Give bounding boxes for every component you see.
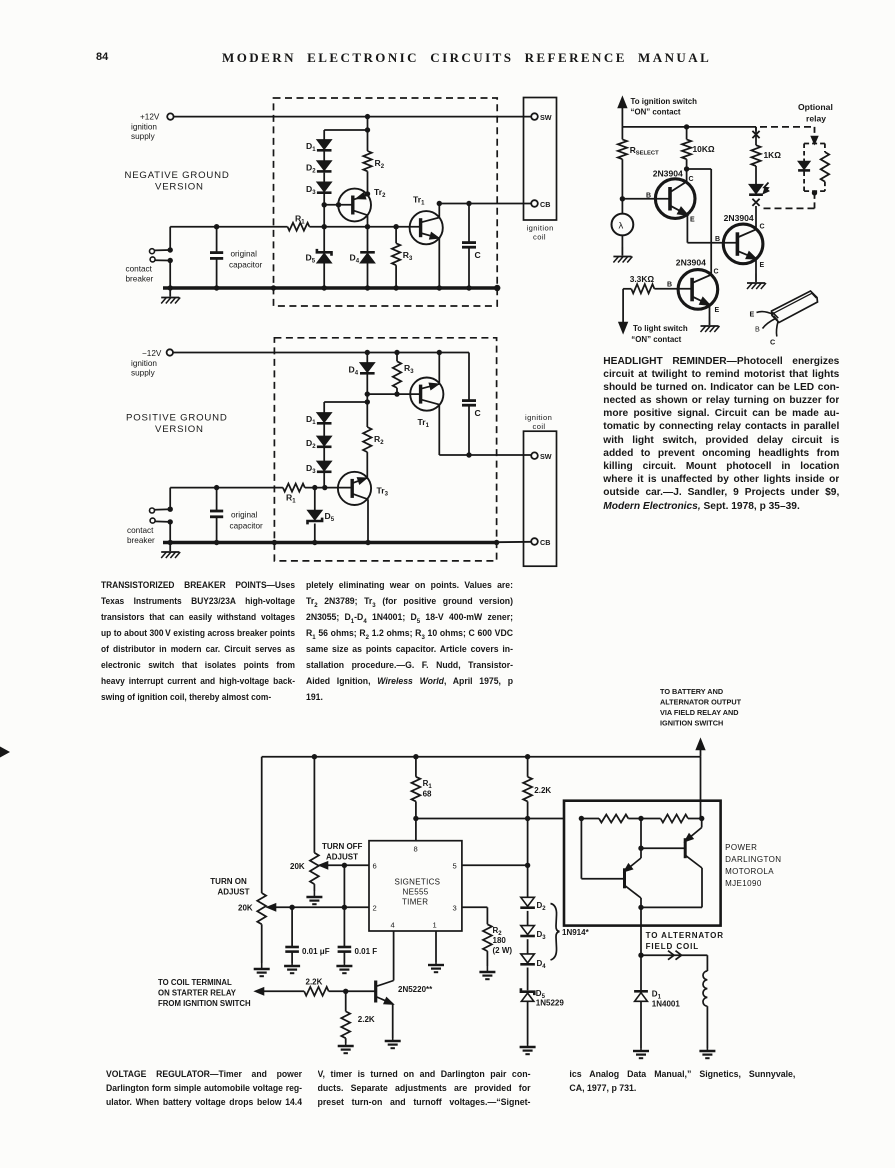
wire D4 lead (366, 353, 368, 363)
wire R2 to Tr3 (366, 452, 368, 478)
resistor R2 (363, 427, 371, 452)
wire D5 to rail (323, 264, 325, 289)
resistor internal 2 (661, 815, 688, 823)
node D4 bottom junction (365, 391, 370, 396)
capacitor original (210, 251, 223, 254)
svg-text:CB: CB (540, 200, 550, 209)
caption transistorized breaker points col 1 (101, 577, 295, 705)
svg-text:R3: R3 (403, 250, 413, 262)
wire D5 lead (314, 488, 316, 511)
svg-text:IGNITION SWITCH: IGNITION SWITCH (660, 719, 723, 728)
svg-text:MOTOROLA: MOTOROLA (725, 867, 774, 876)
node R2 column junction (365, 399, 370, 404)
svg-text:capacitor: capacitor (230, 522, 263, 531)
arrow up ignition (618, 98, 626, 108)
svg-text:1KΩ: 1KΩ (764, 150, 782, 160)
zener D5 1N5229 (521, 988, 534, 995)
svg-text:C: C (689, 176, 694, 183)
svg-text:ON STARTER RELAY: ON STARTER RELAY (158, 989, 237, 998)
svg-text:E: E (750, 310, 755, 319)
svg-text:contact: contact (126, 265, 153, 274)
zener D5 (308, 511, 322, 520)
optional relay coil (824, 144, 826, 153)
capacitor C (462, 241, 476, 244)
svg-text:1N914*: 1N914* (562, 928, 590, 937)
svg-text:C: C (475, 408, 481, 418)
wire QR collector down (701, 868, 703, 907)
svg-text:3: 3 (453, 904, 457, 913)
node base junction (322, 202, 327, 207)
wire breaker drop (169, 227, 171, 250)
ground pin1 (435, 962, 437, 965)
wire D4 lead (367, 227, 369, 253)
diode D1 1N4001 (640, 955, 642, 990)
wire -12V rail (173, 352, 469, 354)
svg-text:Optional: Optional (798, 102, 833, 112)
resistor 2.2K vertical (345, 991, 347, 1011)
capacitor 0.01uF second (343, 865, 345, 946)
wire D2-D3 (527, 911, 529, 926)
wire Tr1 up to rail (438, 353, 440, 384)
svg-text:TURN ON: TURN ON (210, 877, 247, 886)
ground Q3 (709, 317, 711, 326)
svg-text:ignition: ignition (527, 224, 554, 233)
svg-text:0.01 F: 0.01 F (355, 947, 378, 956)
ignition coil box (524, 98, 557, 221)
svg-text:B: B (667, 282, 672, 289)
svg-text:3.3KΩ: 3.3KΩ (630, 274, 655, 284)
wire C top lead (468, 353, 470, 401)
node rail junction (466, 285, 471, 290)
node cap2 crossing (342, 905, 347, 910)
svg-text:VERSION: VERSION (155, 182, 204, 193)
wire Rselect to photocell (621, 159, 623, 214)
node turn-on pot top (312, 754, 317, 759)
svg-text:20K: 20K (290, 862, 305, 871)
wire QL base loop (580, 819, 582, 879)
capacitor C (462, 399, 476, 402)
svg-text:−12V: −12V (142, 349, 162, 358)
wire pin5 (462, 864, 528, 866)
svg-text:FROM IGNITION SWITCH: FROM IGNITION SWITCH (158, 999, 251, 1008)
wire R2 to Tr2 collector (367, 171, 369, 195)
running head title (222, 50, 705, 66)
wire to ignition switch (621, 104, 623, 127)
node cap top (214, 485, 219, 490)
diode D4 (360, 251, 375, 254)
node QR base junction (638, 846, 643, 851)
svg-text:original: original (231, 250, 258, 259)
page number (96, 51, 108, 63)
resistor 2.2K right (527, 757, 529, 777)
wire C bottom lead (468, 405, 470, 455)
node D4 top (365, 350, 370, 355)
svg-text:Tr3: Tr3 (377, 486, 389, 498)
svg-text:VIA FIELD RELAY AND: VIA FIELD RELAY AND (660, 708, 739, 717)
wire base line Tr1 (367, 393, 420, 395)
contact breaker lower contact (150, 518, 155, 523)
svg-text:D1: D1 (306, 414, 316, 426)
svg-text:D2: D2 (306, 438, 316, 450)
node 2.2K crossing (525, 816, 530, 821)
wire R3 lead (396, 353, 398, 362)
node rail junction (365, 285, 370, 290)
node rail junction (393, 285, 398, 290)
node rail junction (168, 540, 173, 545)
diode D3 1N914 (521, 926, 535, 935)
transistor Q2 2N3904 (723, 224, 763, 264)
svg-text:To light switch: To light switch (633, 324, 688, 333)
wire left column (261, 757, 263, 893)
transistor Tr1 (410, 211, 443, 244)
svg-text:6: 6 (373, 862, 377, 871)
svg-text:ALTERNATOR OUTPUT: ALTERNATOR OUTPUT (660, 698, 742, 707)
node CB terminal (531, 538, 538, 545)
svg-text:“ON” contact: “ON” contact (631, 108, 681, 117)
wire breaker line (170, 226, 287, 228)
wire breaker drop (169, 488, 171, 510)
svg-text:NEGATIVE GROUND: NEGATIVE GROUND (125, 170, 230, 181)
svg-text:coil: coil (533, 233, 546, 242)
dashed enclosure (274, 338, 496, 561)
inductor field coil (703, 971, 707, 1006)
svg-text:capacitor: capacitor (229, 261, 262, 270)
node R3 top (394, 350, 399, 355)
transistor Q1 2N3904 (655, 179, 695, 219)
resistor R3 (393, 361, 401, 388)
wire turn-off column (313, 757, 315, 853)
node cap top (214, 224, 219, 229)
wire base line (259, 990, 304, 992)
wire C top lead (468, 204, 470, 243)
capacitor original (210, 510, 223, 513)
wire QR base (640, 819, 642, 859)
caption voltage regulator col 1 (106, 1067, 302, 1110)
ground 2.2K vertical (345, 1043, 347, 1046)
svg-text:VERSION: VERSION (155, 424, 204, 435)
wire collector feed (700, 757, 702, 819)
svg-text:2N5220**: 2N5220** (398, 985, 433, 994)
diode D4 1N914 (521, 954, 535, 963)
svg-text:D3: D3 (537, 930, 547, 941)
svg-text:TO COIL TERMINAL: TO COIL TERMINAL (158, 978, 232, 987)
resistor R2 180 (483, 924, 492, 951)
x mark upper (752, 131, 759, 138)
wire relay dashed bottom (814, 193, 816, 209)
node relay bottom (812, 190, 817, 195)
svg-text:D4: D4 (350, 253, 360, 265)
ground photocell (621, 247, 623, 256)
wire pin2 wiper (271, 906, 369, 908)
svg-text:RSELECT: RSELECT (630, 145, 659, 157)
svg-text:SW: SW (540, 113, 552, 122)
svg-text:DARLINGTON: DARLINGTON (725, 855, 781, 864)
node SW terminal (531, 452, 538, 459)
resistor 3.3K (623, 288, 631, 290)
wire pin1 ground (435, 931, 437, 962)
potentiometer TURN ON 20K (257, 893, 266, 924)
svg-text:1: 1 (433, 921, 437, 930)
zener D5 (317, 249, 332, 256)
arrow wiper turn-off (320, 862, 328, 869)
wire rail to R2 top (367, 117, 369, 151)
svg-text:5: 5 (453, 862, 457, 871)
node 10K top (684, 124, 689, 129)
svg-text:coil: coil (533, 422, 546, 431)
node collector junction (684, 166, 689, 171)
caption transistorized breaker points col 2 (306, 577, 513, 705)
diode D1 (317, 140, 331, 149)
wire R2 column (366, 394, 368, 427)
wire pin4 (393, 931, 395, 981)
svg-text:Tr2: Tr2 (374, 187, 386, 199)
resistor 2.2K base (304, 987, 329, 996)
transistor Tr3 (338, 472, 371, 505)
wire D2-D3 (323, 448, 325, 461)
diode D3 (317, 461, 331, 470)
contact breaker upper contact (150, 508, 155, 513)
diode D2 1N914 (521, 897, 535, 906)
wire rail to CB (497, 541, 532, 543)
resistor internal 1 (599, 815, 628, 823)
node base junction (343, 989, 348, 994)
wire base of Tr2 (324, 204, 353, 206)
wire Tr1 collector up (438, 204, 440, 218)
node R1 top (413, 754, 418, 759)
resistor R1 (288, 223, 310, 231)
svg-text:ignition: ignition (525, 413, 552, 422)
node pin8 junction (413, 816, 418, 821)
node Tr1 emitter junction (437, 350, 442, 355)
svg-text:180: 180 (493, 936, 507, 945)
ground turn-off pot (313, 891, 315, 897)
wire original capacitor to rail (216, 258, 218, 288)
resistor R1 (283, 484, 305, 492)
wire branch to diode string (324, 129, 367, 131)
ground Q2 (755, 274, 757, 283)
node rail junction (437, 285, 442, 290)
contact breaker upper contact (150, 249, 155, 254)
LED indicator (750, 185, 763, 194)
ground turn-on pot (261, 963, 263, 969)
node darlington in (579, 816, 584, 821)
diode D2 (317, 436, 331, 445)
resistor R1 68 (415, 757, 417, 777)
node D5 top (312, 485, 317, 490)
wire photocell to ground (621, 235, 623, 247)
svg-text:B: B (646, 193, 651, 200)
ground D1 (640, 1048, 642, 1051)
resistor R2 (363, 151, 371, 171)
svg-text:R3: R3 (404, 363, 414, 375)
svg-text:20K: 20K (238, 904, 253, 913)
wire Tr2 emitter down (367, 215, 369, 227)
wire 1K up (755, 127, 757, 145)
node C top (466, 201, 471, 206)
svg-text:C: C (760, 224, 765, 231)
svg-text:2.2K: 2.2K (306, 978, 323, 987)
node base wire junction (336, 202, 341, 207)
transistor QL (623, 868, 626, 888)
op-amp U1 555 timer box (369, 841, 462, 931)
node field coil tap (638, 953, 643, 958)
svg-text:CB: CB (540, 538, 550, 547)
svg-text:D4: D4 (537, 959, 547, 970)
svg-text:breaker: breaker (126, 275, 154, 284)
wire collector line to CB (439, 203, 531, 205)
svg-text:R2: R2 (375, 158, 385, 170)
node cap2 top (342, 863, 347, 868)
dashed enclosure (274, 98, 498, 306)
diode D2 (317, 161, 331, 170)
wire D4-D5 (527, 968, 529, 991)
wire to light switch (622, 289, 624, 326)
svg-text:D2: D2 (537, 901, 547, 912)
resistor RSELECT (621, 127, 623, 139)
wire Tr3 emitter down (367, 499, 369, 542)
arrow to coil terminal (256, 988, 264, 995)
wire D5 to rail (314, 524, 316, 543)
svg-text:2.2K: 2.2K (358, 1015, 375, 1024)
node Q1 base junction (620, 196, 625, 201)
wire D4 to rail (367, 264, 369, 289)
transistor Q darlington box (564, 801, 721, 926)
ground symbol (169, 543, 171, 552)
wire D5 to ground (527, 1001, 529, 1044)
svg-text:POWER: POWER (725, 843, 757, 852)
page artifact arrow (0, 747, 10, 758)
contact breaker lower contact (150, 257, 155, 262)
wire D3 to base node (323, 194, 325, 227)
svg-text:C: C (714, 269, 719, 276)
ground symbol (169, 288, 171, 297)
svg-text:E: E (690, 217, 695, 224)
svg-text:ADJUST: ADJUST (218, 888, 250, 897)
wire Q1 collector (686, 169, 688, 182)
wire original capacitor to rail (216, 517, 218, 543)
wire QL collector down (640, 898, 642, 907)
svg-text:E: E (760, 262, 765, 269)
wire Q2 collector up (755, 206, 757, 229)
potentiometer TURN OFF 20K (310, 853, 319, 884)
node rail end (494, 285, 500, 291)
resistor 1K (751, 145, 760, 166)
transistor Tr1 (410, 378, 443, 411)
node rail junction (214, 540, 219, 545)
wire to Q3 collector (687, 168, 712, 170)
svg-text:C: C (770, 338, 775, 347)
wire ground rail (163, 286, 497, 289)
node rail junction (322, 285, 327, 290)
svg-text:2N3904: 2N3904 (676, 258, 706, 268)
node cap1 top (289, 905, 294, 910)
node -12V ignition supply terminal (167, 349, 173, 355)
svg-text:D2: D2 (306, 163, 316, 175)
node +12V ignition supply terminal (167, 113, 173, 119)
node rail junction (494, 540, 499, 545)
caption voltage regulator col 2 (318, 1067, 531, 1110)
node C bottom (466, 452, 471, 457)
svg-text:1N4001: 1N4001 (652, 1000, 681, 1009)
svg-text:TIMER: TIMER (402, 898, 428, 907)
arrow down light switch (619, 323, 627, 333)
wire coil lead (706, 955, 708, 971)
wire Tr1 down to SW line (438, 405, 440, 455)
caption headlight reminder (603, 355, 839, 513)
svg-text:FIELD COIL: FIELD COIL (646, 942, 699, 951)
svg-text:R2: R2 (374, 434, 384, 446)
svg-text:2N3904: 2N3904 (724, 213, 754, 223)
wire original capacitor top lead (216, 227, 218, 253)
arrow wiper turn-on (268, 904, 276, 911)
transistor QR (684, 838, 687, 858)
node internal mid (638, 816, 643, 821)
svg-text:relay: relay (806, 114, 826, 124)
svg-text:ADJUST: ADJUST (326, 853, 358, 862)
svg-text:1N5229: 1N5229 (536, 999, 565, 1008)
wire breaker to rail (169, 261, 171, 289)
brace 1N914 (551, 904, 560, 961)
svg-text:“ON” contact: “ON” contact (631, 335, 681, 344)
svg-text:TO BATTERY AND: TO BATTERY AND (660, 687, 723, 696)
wire breaker to rail (169, 522, 171, 543)
node Tr2-D4 junction (365, 224, 370, 229)
node D5 top (322, 224, 327, 229)
wire D4 to base node (366, 374, 368, 394)
svg-text:8: 8 (414, 845, 418, 854)
wire 2N5220 emitter (392, 1004, 394, 1038)
svg-text:ignition: ignition (131, 123, 157, 132)
svg-text:E: E (715, 307, 720, 314)
wire Q1 base (622, 198, 670, 200)
svg-text:2: 2 (373, 904, 377, 913)
wire QR collector feed (701, 819, 703, 828)
wire coil to ground (706, 1006, 708, 1048)
node diode string bottom (322, 485, 327, 490)
wire to field coil (641, 954, 707, 956)
svg-text:2N3904: 2N3904 (653, 169, 683, 179)
svg-text:Tr1: Tr1 (418, 417, 430, 429)
optional relay branch diode (804, 143, 825, 145)
diode D3 (317, 182, 331, 191)
transistor package sketch (772, 291, 818, 323)
wire D2-D3 (323, 173, 325, 183)
transistor Q3 2N3904 (678, 270, 718, 310)
wire R3 down (396, 388, 398, 394)
wire D1 to ground (640, 1001, 642, 1048)
diode D1 (317, 413, 331, 422)
svg-text:D1: D1 (306, 141, 316, 153)
node collectors junction (638, 905, 643, 910)
svg-text:supply: supply (131, 369, 156, 378)
node rail junction (214, 285, 219, 290)
svg-text:68: 68 (423, 790, 432, 799)
wire top rail (262, 756, 701, 758)
wire D3 to base node (323, 473, 325, 488)
svg-text:D3: D3 (306, 184, 316, 196)
diode D4 (361, 363, 375, 372)
photocell (612, 214, 634, 236)
svg-text:POSITIVE GROUND: POSITIVE GROUND (126, 413, 228, 424)
node junction D-string feed (365, 127, 370, 132)
arrow to battery (697, 740, 705, 750)
node R3 top (393, 224, 398, 229)
node junction top rail (365, 114, 370, 119)
resistor 10K (686, 127, 688, 139)
wire ground rail (163, 541, 497, 544)
caption voltage regulator col 3 (569, 1067, 795, 1096)
wire Q2 emitter to ground (755, 259, 757, 274)
